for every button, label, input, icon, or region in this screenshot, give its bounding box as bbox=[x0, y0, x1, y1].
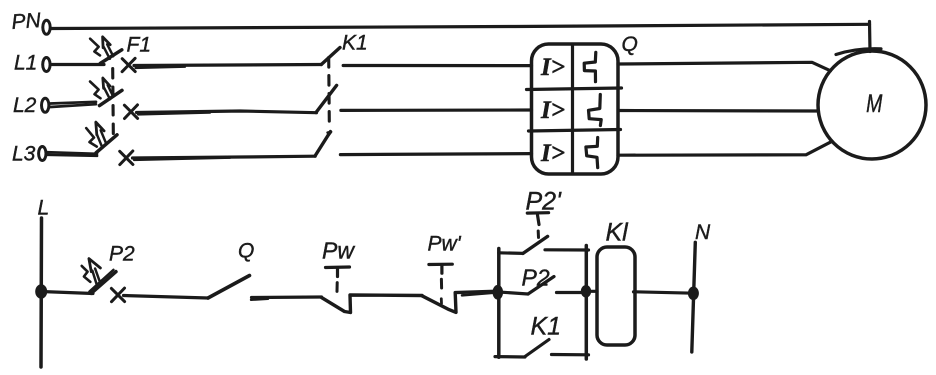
svg-text:L3: L3 bbox=[12, 143, 36, 166]
svg-text:L1: L1 bbox=[14, 52, 37, 75]
svg-text:Q: Q bbox=[622, 33, 638, 56]
svg-text:M: M bbox=[866, 90, 883, 118]
svg-text:I>: I> bbox=[540, 97, 565, 124]
svg-text:PN: PN bbox=[11, 9, 43, 34]
svg-text:K1: K1 bbox=[342, 32, 368, 55]
svg-text:P2: P2 bbox=[109, 243, 135, 266]
svg-text:I>: I> bbox=[540, 54, 565, 81]
svg-text:Pw: Pw bbox=[322, 238, 355, 264]
svg-text:I>: I> bbox=[540, 140, 565, 167]
svg-text:Kl: Kl bbox=[606, 219, 630, 247]
svg-text:Q: Q bbox=[238, 240, 254, 263]
svg-text:N: N bbox=[695, 221, 711, 244]
svg-text:P2': P2' bbox=[526, 188, 563, 216]
svg-text:K1: K1 bbox=[531, 313, 562, 341]
svg-text:L: L bbox=[38, 197, 50, 220]
svg-text:L2: L2 bbox=[13, 94, 37, 117]
svg-text:Pw': Pw' bbox=[428, 233, 462, 256]
svg-text:F1: F1 bbox=[127, 34, 152, 57]
svg-text:P2: P2 bbox=[522, 265, 550, 291]
